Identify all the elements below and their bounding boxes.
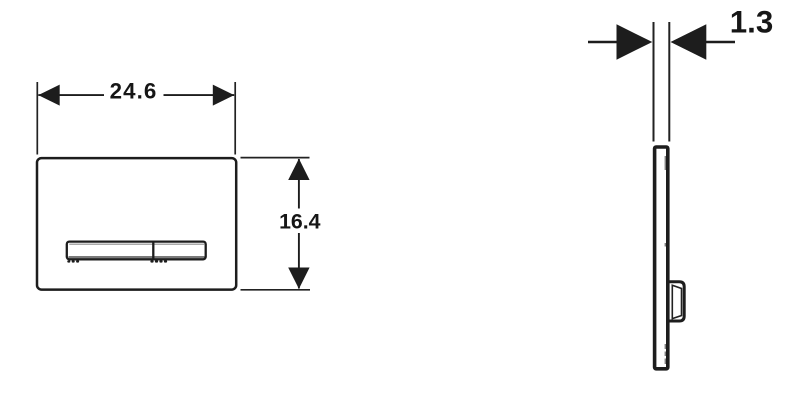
- svg-text:16.4: 16.4: [279, 210, 321, 234]
- svg-text:24.6: 24.6: [110, 78, 158, 103]
- svg-text:1.3: 1.3: [730, 4, 774, 39]
